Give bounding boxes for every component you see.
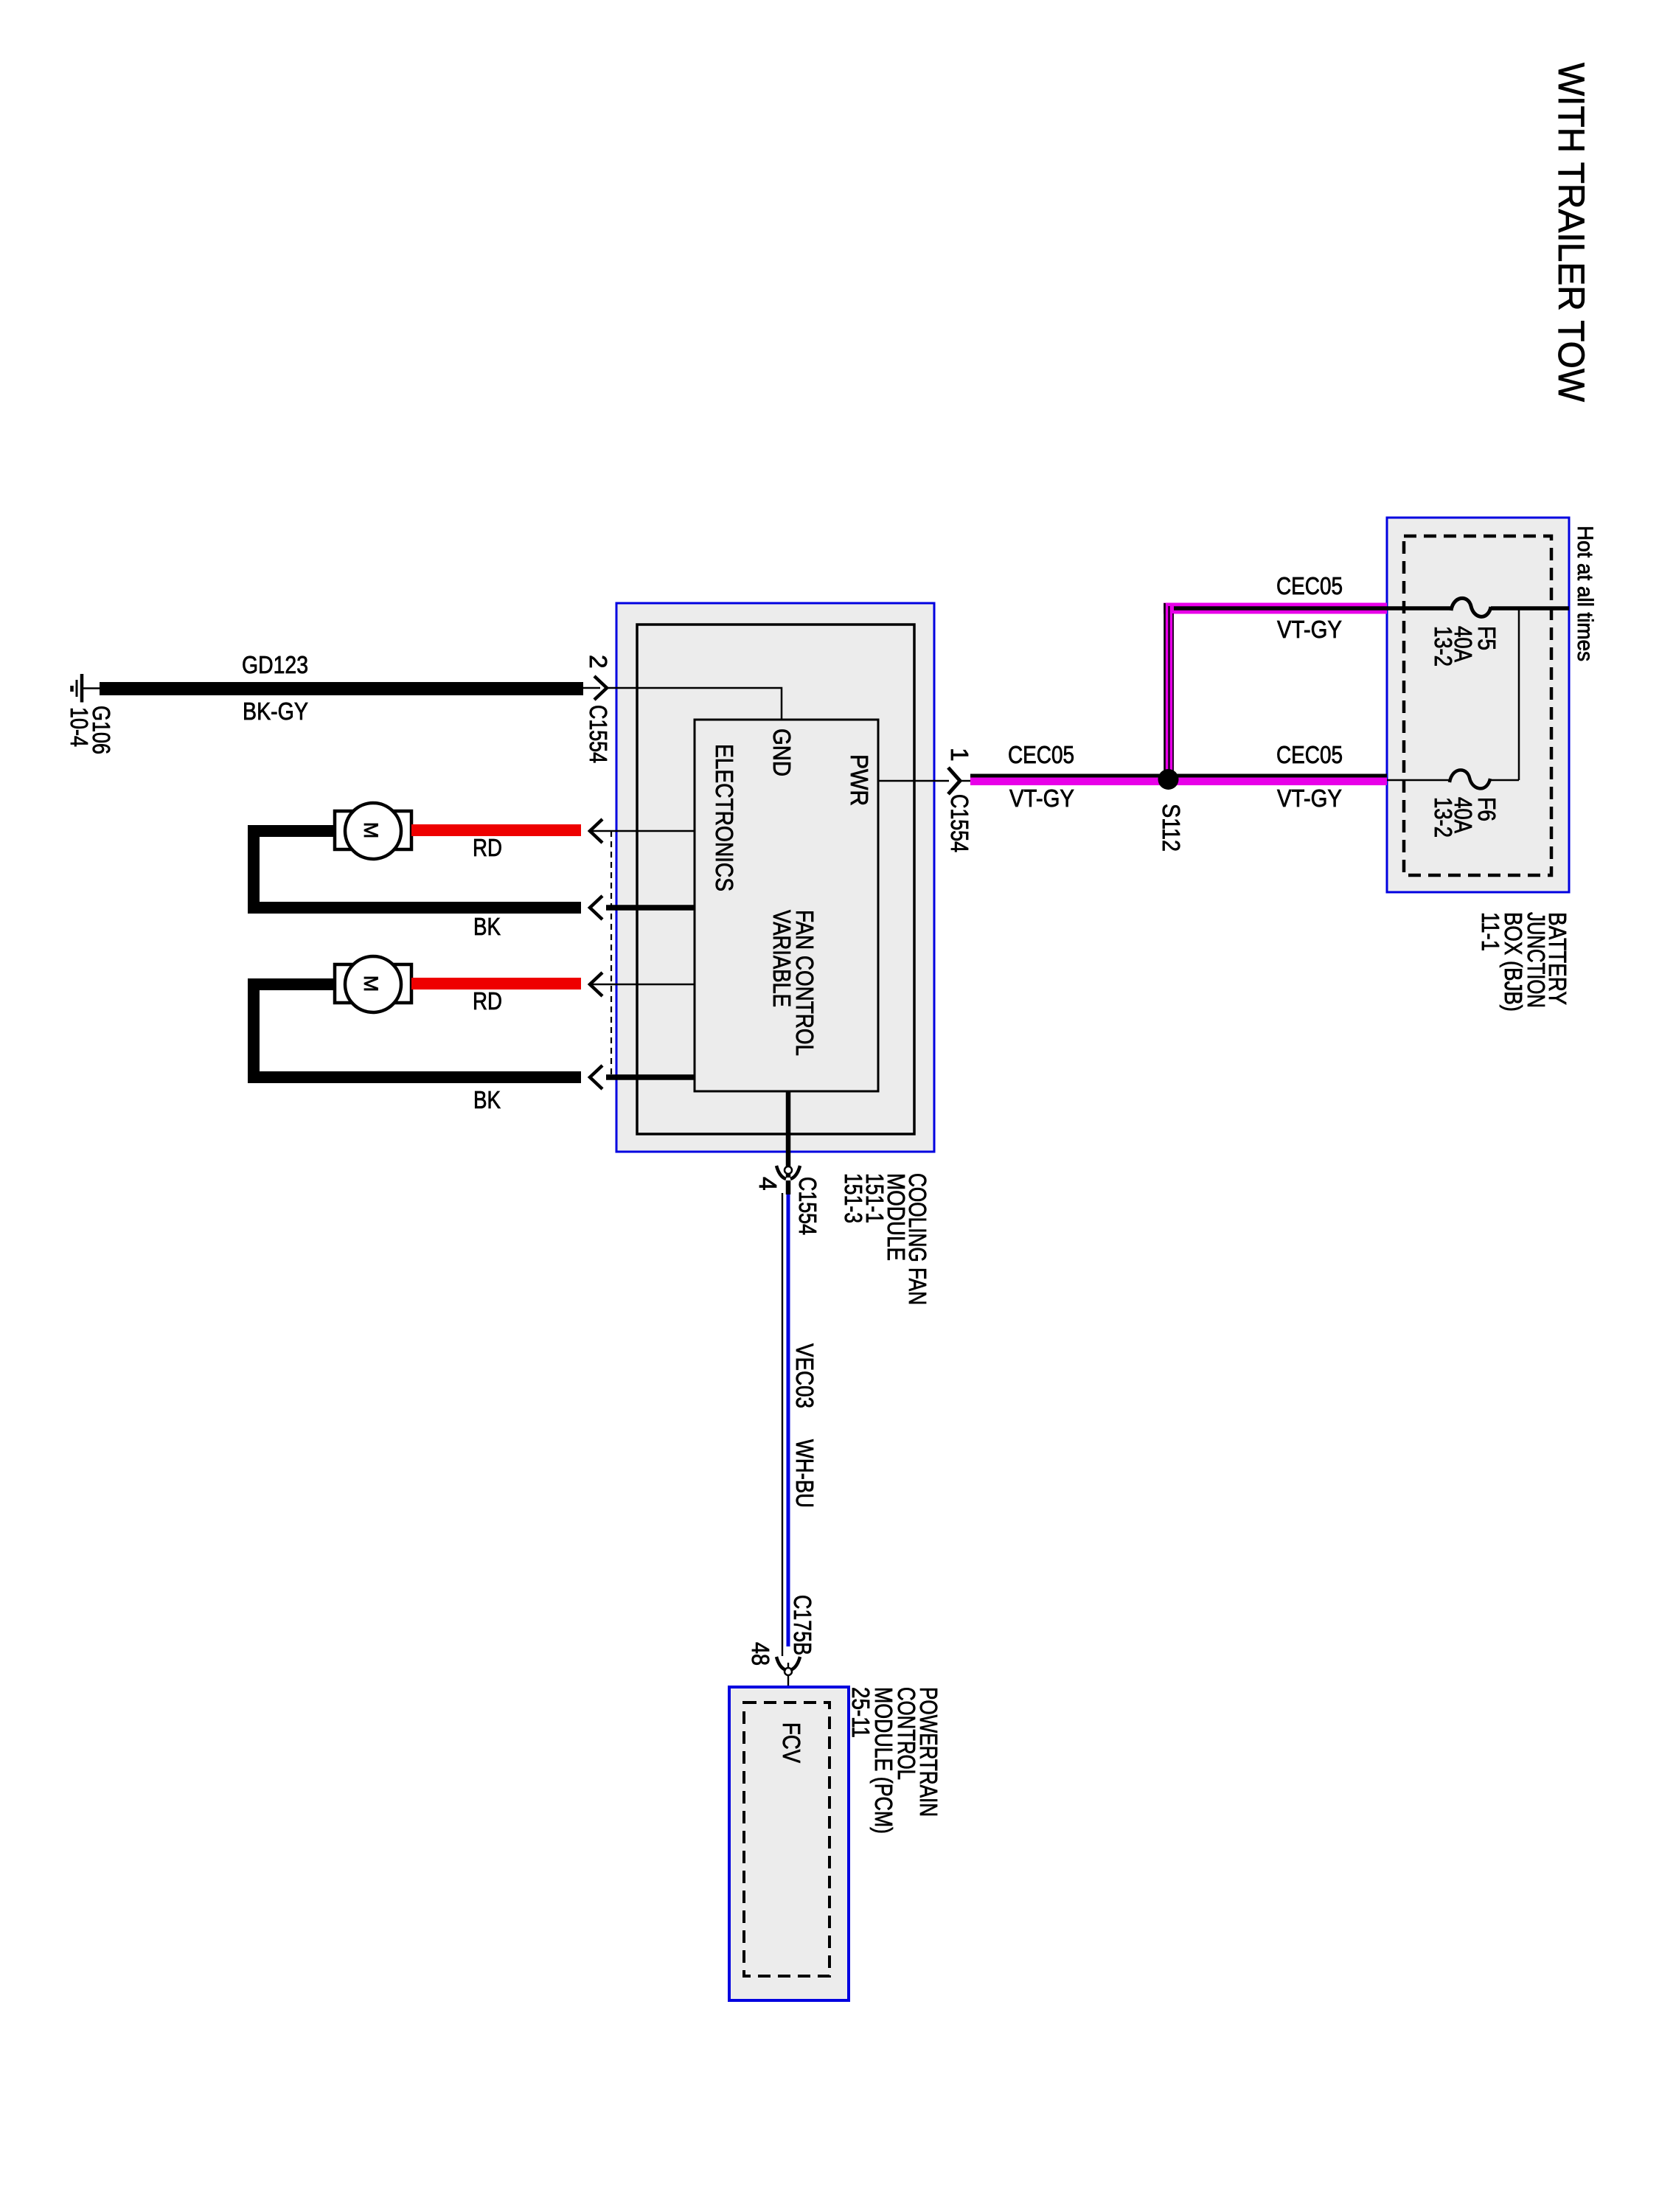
wire F6 branch connector [1518, 608, 1520, 780]
label 151-3 [839, 1173, 866, 1223]
wire RD motor1 [411, 824, 581, 836]
svg-text:GD123: GD123 [242, 652, 308, 679]
svg-text:M: M [360, 822, 382, 839]
cooling fan module outline [616, 603, 934, 1152]
label C1554 pin2 [584, 705, 611, 763]
powertrain control module (PCM) outline [729, 1687, 849, 2000]
wire F5 feed (thick) [1387, 606, 1569, 611]
BJB inner dashed box [1404, 536, 1551, 875]
svg-text:C1554: C1554 [584, 705, 611, 763]
svg-text:RD: RD [473, 988, 502, 1015]
fuse F5 [1451, 598, 1491, 616]
svg-text:FCV: FCV [777, 1722, 804, 1764]
label RD motor1 [473, 835, 502, 862]
label G106 [87, 706, 114, 754]
label C1554 pin1 [945, 794, 973, 852]
label RD motor2 [473, 988, 502, 1015]
connector arrow pin 48 [776, 1657, 800, 1703]
svg-text:Hot at all times: Hot at all times [1573, 526, 1597, 661]
fuse F6 [1450, 770, 1490, 788]
svg-text:CEC05: CEC05 [1276, 742, 1343, 769]
label CEC05 upper [1276, 573, 1343, 600]
svg-text:PWR: PWR [845, 754, 872, 806]
label COOLING FAN [903, 1173, 931, 1305]
label BOX (BJB) [1499, 912, 1526, 1012]
wire BK motor2 [254, 984, 581, 1077]
label VARIABLE [768, 910, 795, 1007]
svg-text:BK: BK [473, 1087, 501, 1114]
label BATTERY [1543, 912, 1571, 1005]
connector arrow pin 1 PWR [948, 768, 970, 794]
svg-text:VT-GY: VT-GY [1277, 616, 1342, 644]
splice S112 [1158, 769, 1179, 790]
module inner box variable fan control [695, 720, 878, 1091]
svg-text:VT-GY: VT-GY [1009, 785, 1074, 813]
title WITH TRAILER TOW [1551, 63, 1592, 403]
svg-text:BK-GY: BK-GY [243, 698, 308, 726]
wire FCV pin 4 [786, 1091, 791, 1178]
module inner box electronics [637, 625, 914, 1134]
wire CEC05 VT-GY lower (S112 to BJB F6) [1174, 776, 1387, 780]
battery junction box (BJB) outline [1387, 518, 1569, 892]
label VEC03 [790, 1343, 818, 1408]
label PWR [845, 754, 872, 806]
label ELECTRONICS [710, 744, 737, 891]
svg-text:C175B: C175B [788, 1595, 815, 1655]
label VT-GY lower right [1277, 785, 1342, 813]
svg-text:25-11: 25-11 [846, 1687, 874, 1738]
svg-text:WH-BU: WH-BU [790, 1439, 818, 1508]
label pin 48 [746, 1642, 773, 1666]
svg-text:4: 4 [754, 1177, 781, 1191]
svg-text:VT-GY: VT-GY [1277, 785, 1342, 813]
svg-text:13-2: 13-2 [1429, 626, 1456, 667]
label BK motor1 [473, 914, 501, 941]
svg-text:VEC03: VEC03 [790, 1343, 818, 1408]
label VT-GY upper [1277, 616, 1342, 644]
label 25-11 [846, 1687, 874, 1738]
connector arrow pin 4 [776, 1166, 800, 1194]
svg-text:CEC05: CEC05 [1008, 742, 1074, 769]
svg-text:CEC05: CEC05 [1276, 573, 1343, 600]
label BK-GY [243, 698, 308, 726]
wire VEC03 WH-BU [782, 1193, 788, 1656]
label F6 40A 13-2 [1429, 797, 1500, 838]
svg-text:1: 1 [945, 748, 973, 762]
label CEC05 lower left [1008, 742, 1074, 769]
label FAN CONTROL [790, 910, 818, 1056]
svg-text:11-1: 11-1 [1476, 912, 1503, 951]
wire F6 feed (thin) [1387, 779, 1519, 782]
motor M2 [335, 956, 411, 1012]
label GD123 [242, 652, 308, 679]
label VT-GY lower left [1009, 785, 1074, 813]
svg-text:C1554: C1554 [793, 1177, 821, 1235]
label FCV [777, 1722, 804, 1764]
svg-text:S112: S112 [1157, 804, 1184, 852]
svg-text:M: M [360, 975, 382, 992]
connector arrow pin 2 [583, 676, 607, 700]
svg-text:BK: BK [473, 914, 501, 941]
wire CEC05 VT-GY upper (from F5) [1164, 603, 1387, 776]
label GND [768, 728, 795, 776]
svg-text:10-4: 10-4 [65, 707, 92, 747]
label POWERTRAIN [914, 1687, 942, 1817]
label C175B [788, 1595, 815, 1655]
svg-text:RD: RD [473, 835, 502, 862]
wire PWR internal [878, 780, 949, 782]
label C1554 pin4 [793, 1177, 821, 1235]
svg-text:VARIABLE: VARIABLE [768, 910, 795, 1007]
connector arrow RD2 [590, 973, 695, 996]
label 151-1 [860, 1173, 888, 1223]
svg-text:WITH TRAILER TOW: WITH TRAILER TOW [1551, 63, 1592, 403]
svg-text:ELECTRONICS: ELECTRONICS [710, 744, 737, 891]
PCM inner dashed box [744, 1703, 829, 1976]
label CONTROL [892, 1687, 919, 1780]
connector arrow RD1 [590, 819, 695, 843]
connector arrow BK2 [590, 1065, 695, 1089]
label BK motor2 [473, 1087, 501, 1114]
wire GD123 BK-GY (ground wire) [100, 682, 583, 695]
wire RD motor2 [411, 978, 581, 990]
connector C1554 dashed link [611, 831, 612, 1077]
svg-text:48: 48 [746, 1642, 773, 1666]
label F5 40A 13-2 [1429, 626, 1500, 667]
wire BK motor1 [254, 831, 581, 908]
label pin 4 [754, 1177, 781, 1191]
connector arrow BK1 [590, 896, 695, 919]
motor M1 [335, 803, 411, 859]
label WH-BU [790, 1439, 818, 1508]
label 11-1 [1476, 912, 1503, 951]
label pin 1 [945, 748, 973, 762]
label S112 [1157, 804, 1184, 852]
label Hot at all times [1573, 526, 1597, 661]
svg-text:151-3: 151-3 [839, 1173, 866, 1223]
svg-text:2: 2 [584, 655, 611, 669]
label CEC05 lower right [1276, 742, 1343, 769]
label MODULE [882, 1173, 909, 1261]
wire GND internal [607, 688, 782, 720]
label MODULE (PCM) [869, 1687, 897, 1834]
svg-text:C1554: C1554 [945, 794, 973, 852]
label JUNCTION [1522, 912, 1549, 1008]
ground G106 [72, 674, 100, 703]
label pin 2 [584, 655, 611, 669]
svg-text:13-2: 13-2 [1429, 797, 1456, 838]
wire CEC05 VT-GY (S112 to PWR pin) [970, 776, 1164, 780]
svg-text:GND: GND [768, 728, 795, 776]
label 10-4 [65, 707, 92, 747]
